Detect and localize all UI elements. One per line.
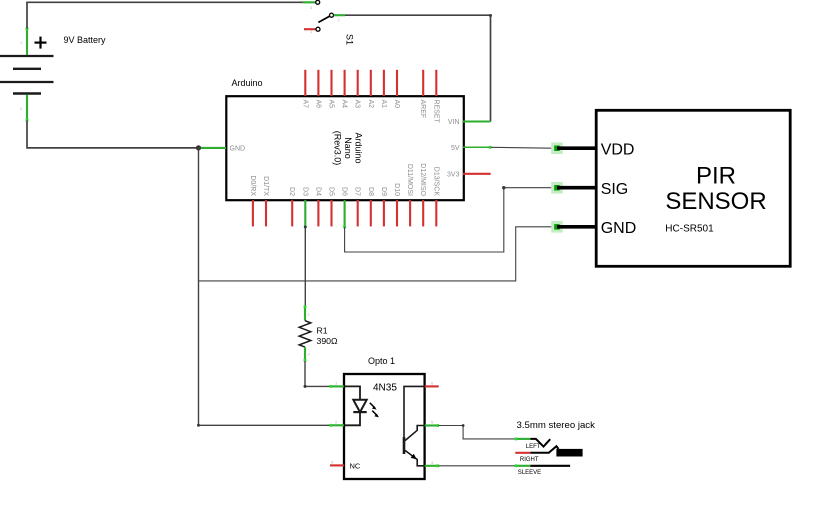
svg-text:Opto 1: Opto 1 (368, 356, 395, 366)
svg-text:A5: A5 (328, 100, 335, 109)
opto internal LED cathode bar (353, 411, 366, 413)
Arduino top pin A4 leg (red) (344, 70, 346, 96)
Arduino bottom pin D9 leg (red) (383, 200, 385, 226)
switch S1 lever (318, 16, 329, 22)
Arduino bottom pin D8 leg (red) (370, 200, 372, 226)
Arduino right pin VIN leg (green) (463, 120, 491, 122)
opto pin 2 leg (green) (329, 424, 344, 427)
Arduino bottom pin D10 leg (red) (396, 200, 398, 226)
Arduino 5V green endpoint (489, 146, 492, 149)
switch S1 pin 1 stub (red, unconnected) (304, 28, 316, 30)
switch S1 pin 3 terminal circle (316, 0, 320, 4)
svg-text:9V Battery: 9V Battery (64, 35, 107, 45)
wire D3 down to R1 (304, 227, 306, 307)
svg-text:D10: D10 (393, 183, 400, 196)
Arduino top pin AREF leg (red) (422, 70, 424, 96)
battery pin 1 leg (green) (26, 27, 29, 55)
Arduino bottom pin D0/RX leg (red) (252, 200, 254, 226)
svg-text:D5: D5 (328, 187, 335, 196)
Arduino right pin 3V3 stub (red, unconnected) (463, 173, 491, 175)
PIR sensor U3 body (596, 110, 790, 266)
opto pin 1 leg (green) (329, 385, 344, 388)
wire battery+ to switch pin 3 (top) (26, 1, 315, 3)
PIR GND pin bar (557, 225, 596, 229)
svg-text:A6: A6 (314, 100, 321, 109)
Arduino bottom pin D2 leg (red) (291, 200, 293, 226)
wire left rail to opto pin 2 (199, 424, 331, 426)
wire PIR GND to left rail (199, 227, 553, 281)
svg-text:5V: 5V (451, 145, 460, 152)
svg-text:Arduino: Arduino (232, 78, 263, 88)
svg-text:GND: GND (230, 145, 246, 152)
PIR SIG pin pad (551, 182, 563, 194)
wire D3 end dot (304, 226, 307, 229)
junction node GND (196, 145, 201, 150)
optocoupler U2 body (344, 374, 425, 479)
opto LED emission arrow 1 (370, 403, 377, 410)
svg-text:D0/RX: D0/RX (249, 175, 256, 196)
svg-text:D11/MOSI: D11/MOSI (406, 164, 413, 196)
resistor R1 pin 1 leg (green) (304, 305, 307, 320)
svg-text:A2: A2 (367, 100, 374, 109)
svg-text:4N35: 4N35 (373, 382, 397, 393)
opto internal LED cathode lead (345, 412, 360, 425)
opto transistor base bar (403, 437, 406, 454)
svg-text:A4: A4 (341, 100, 348, 109)
jack RIGHT ring contact (530, 446, 558, 453)
wire junction down left rail (198, 148, 200, 425)
svg-text:GND: GND (601, 220, 637, 237)
svg-text:SENSOR: SENSOR (665, 188, 766, 215)
Arduino bottom pin D3 leg (green) (304, 200, 306, 226)
wire D6 end dot (green) (343, 226, 346, 229)
jack plug body (556, 449, 582, 457)
Arduino top pin A5 leg (red) (330, 70, 332, 96)
svg-text:D8: D8 (367, 187, 374, 196)
resistor R1 pin 2 leg (green) (304, 347, 307, 361)
wire bendpoint at top-right corner (489, 14, 492, 17)
svg-text:D12/MISO: D12/MISO (419, 163, 426, 196)
Arduino top pin RESET leg (red) (435, 70, 437, 96)
switch S1 pin 1 terminal circle (316, 27, 320, 31)
battery BT1 9V (0, 37, 54, 94)
jack LEFT tip contact (530, 439, 550, 447)
Arduino right pin 5V leg (green) (463, 146, 491, 148)
switch S1 common terminal circle (330, 13, 334, 17)
wire bendpoint R1 corner (304, 385, 307, 388)
PIR VDD pin pad (551, 143, 563, 155)
Arduino U1 body (226, 96, 463, 200)
Arduino bottom pin D6 leg (green) (344, 200, 346, 226)
svg-text:D4: D4 (314, 187, 321, 196)
svg-text:3.5mm stereo jack: 3.5mm stereo jack (517, 420, 596, 431)
svg-text:S1: S1 (345, 34, 355, 45)
svg-text:D9: D9 (380, 187, 387, 196)
wire bendpoint pin5 corner (462, 424, 465, 427)
wire junction to Arduino GND pin (199, 147, 204, 149)
wire opto pin 4 to jack SLEEVE (439, 465, 516, 467)
opto LED emission arrow 2 (372, 411, 379, 418)
wire Arduino 5V to PIR VDD (491, 146, 552, 149)
opto transistor base lead from pin 6 (404, 386, 424, 440)
opto pin 4 leg (green) (425, 464, 439, 467)
Arduino bottom pin D5 leg (red) (330, 200, 332, 226)
svg-text:RESET: RESET (432, 100, 439, 124)
Arduino bottom pin D4 leg (red) (317, 200, 319, 226)
Arduino bottom pin D12/MISO leg (red) (422, 200, 424, 226)
wire R1 to opto pin 1 (305, 361, 330, 386)
Arduino top pin A7 leg (red) (304, 70, 306, 96)
opto pin 6 stub (red, unconnected) (425, 385, 439, 387)
svg-text:390Ω: 390Ω (317, 336, 338, 346)
svg-text:SIG: SIG (601, 181, 629, 198)
svg-text:VDD: VDD (601, 142, 635, 159)
wire battery- to GND junction (27, 121, 199, 148)
opto transistor collector (405, 426, 424, 441)
switch S1 pin 3 leg (green) (303, 1, 316, 3)
svg-text:RIGHT: RIGHT (520, 457, 539, 463)
opto internal LED anode lead (345, 386, 360, 399)
jack RIGHT pin stub (red, unconnected) (515, 452, 530, 454)
wire corner down to Arduino VIN (490, 15, 492, 121)
Arduino top pin A1 leg (red) (383, 70, 385, 96)
Arduino top pin A2 leg (red) (370, 70, 372, 96)
svg-text:D7: D7 (354, 187, 361, 196)
svg-text:A7: A7 (301, 100, 308, 109)
Arduino bottom pin D13/SCK leg (red) (435, 200, 437, 226)
svg-text:VIN: VIN (448, 119, 460, 126)
Arduino GND pin leg (green) (201, 147, 226, 149)
svg-text:SLEEVE: SLEEVE (518, 470, 541, 476)
Arduino bottom pin D11/MOSI leg (red) (409, 200, 411, 226)
Arduino bottom pin D1/TX leg (red) (265, 200, 267, 226)
jack LEFT pin leg (green) (515, 438, 531, 441)
switch S1 common pin leg (green) (334, 14, 345, 16)
svg-text:D6: D6 (341, 187, 348, 196)
svg-text:PIR: PIR (696, 162, 736, 189)
svg-text:3V3: 3V3 (447, 171, 460, 178)
PIR GND pin pad (551, 221, 563, 233)
Arduino top pin A6 leg (red) (317, 70, 319, 96)
wire bendpoint SIG corner (502, 186, 505, 189)
PIR SIG pin bar (557, 186, 596, 190)
wire bendpoint bottom-left (197, 424, 200, 427)
jack SLEEVE pin leg (green) (515, 464, 531, 467)
Arduino bottom pin D7 leg (red) (357, 200, 359, 226)
svg-text:AREF: AREF (419, 100, 426, 119)
Arduino top pin A3 leg (red) (357, 70, 359, 96)
PIR VDD pin bar (557, 146, 596, 150)
svg-text:D1/TX: D1/TX (262, 176, 269, 196)
svg-text:D2: D2 (288, 187, 295, 196)
svg-text:R1: R1 (317, 326, 328, 336)
opto internal LED triangle (353, 400, 366, 412)
opto pin 3 stub NC (red, unconnected) (330, 464, 344, 466)
svg-text:A3: A3 (354, 100, 361, 109)
svg-text:LEFT: LEFT (526, 444, 541, 450)
wire switch common to corner (345, 14, 491, 16)
svg-text:A0: A0 (393, 100, 400, 109)
opto transistor emitter with arrow (405, 450, 424, 465)
battery pin 2 leg (green) (26, 95, 29, 122)
wire battery+ up (26, 2, 28, 28)
Arduino top pin A0 leg (red) (396, 70, 398, 96)
jack SLEEVE contact bar (530, 465, 570, 467)
svg-text:A1: A1 (380, 100, 387, 109)
svg-text:NC: NC (350, 461, 361, 470)
svg-text:D13/SCK: D13/SCK (432, 167, 439, 197)
wire corner to PIR SIG pad (504, 187, 552, 189)
svg-text:D3: D3 (301, 187, 308, 196)
resistor R1 zigzag (299, 321, 311, 347)
wire D6 to PIR SIG (345, 188, 504, 252)
opto pin 5 leg (green) (425, 424, 439, 427)
wire opto pin 5 to jack LEFT (439, 426, 516, 439)
svg-text:HC-SR501: HC-SR501 (665, 223, 714, 234)
